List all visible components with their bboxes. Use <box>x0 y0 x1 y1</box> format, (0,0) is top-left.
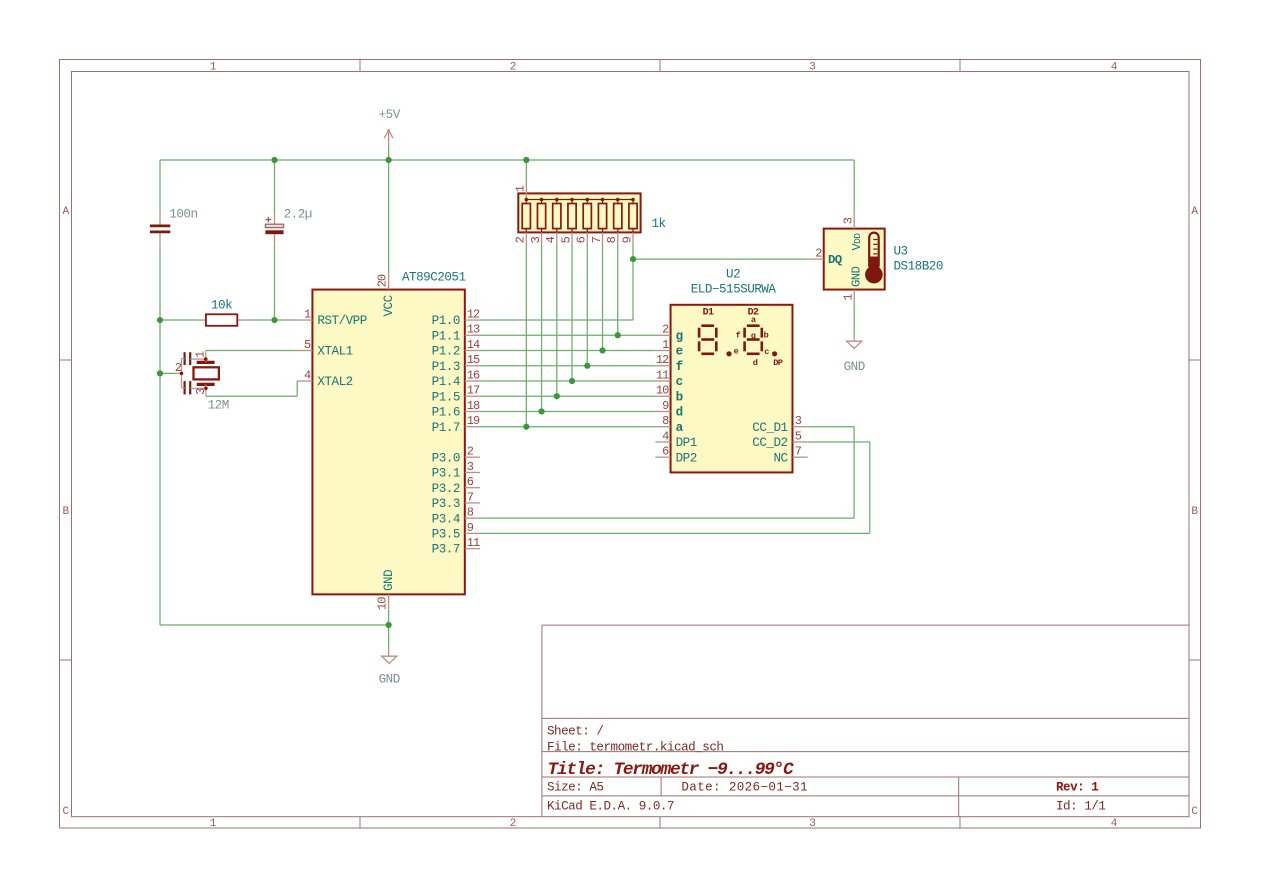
pin 15 P1.3 stub <box>465 365 480 367</box>
junction <box>584 363 590 369</box>
capacitor C1 bottom stub <box>159 233 161 244</box>
capacitor C1 plates <box>150 226 170 232</box>
pin 19 P1.7 stub <box>465 426 480 428</box>
svg-text:6: 6 <box>575 236 589 243</box>
wire P1.4 to display <box>480 380 655 382</box>
pin 6 DP2 stub <box>655 456 670 458</box>
svg-text:8: 8 <box>605 236 619 243</box>
svg-text:20: 20 <box>376 274 390 287</box>
svg-text:2: 2 <box>510 818 517 830</box>
svg-text:Size: A5: Size: A5 <box>547 780 603 794</box>
pin 11 P3.7 stub <box>465 548 480 550</box>
pin 9 RN1 stub <box>632 232 634 244</box>
svg-text:f: f <box>736 331 741 341</box>
resistor network RN1 element 1 <box>522 198 530 233</box>
svg-text:Date: 2026−01−31: Date: 2026−01−31 <box>681 780 808 794</box>
junction <box>157 370 163 376</box>
svg-text:9: 9 <box>467 521 474 535</box>
wire +5V rail <box>160 159 854 161</box>
frame tick top <box>359 60 361 72</box>
resistor network RN1 element 4 <box>568 198 576 233</box>
frame tick bottom <box>359 817 361 828</box>
svg-text:File: termometr.kicad_sch: File: termometr.kicad_sch <box>547 740 723 754</box>
pin 17 P1.5 stub <box>465 395 480 397</box>
svg-text:2.2µ: 2.2µ <box>284 208 312 222</box>
sensor U3 thermometer icon <box>865 233 883 284</box>
wire P3.4 <box>480 517 854 519</box>
svg-text:Title: Termometr −9...99°C: Title: Termometr −9...99°C <box>548 760 795 780</box>
pin 5 XTAL1 stub <box>297 350 312 352</box>
svg-text:P1.2: P1.2 <box>432 345 460 359</box>
svg-text:e: e <box>734 347 739 357</box>
wire XTAL2 horizontal <box>206 395 297 397</box>
svg-text:b: b <box>764 331 769 341</box>
pin 6 RN1 stub <box>586 232 588 244</box>
wire RN1 pin2 to P1.7 <box>525 245 527 427</box>
frame tick left <box>60 359 72 361</box>
resonator Y1 pin3 link <box>190 384 208 396</box>
svg-text:DP: DP <box>773 358 783 368</box>
pin 4 RN1 stub <box>556 232 558 244</box>
resistor network RN1 element 3 <box>553 198 561 233</box>
pin 12 f stub <box>655 365 670 367</box>
junction <box>615 332 621 338</box>
svg-text:3: 3 <box>809 818 816 830</box>
resistor R1 right stub <box>237 319 244 321</box>
svg-text:P1.4: P1.4 <box>432 375 460 389</box>
svg-text:Rev: 1: Rev: 1 <box>1056 780 1099 794</box>
svg-text:c: c <box>764 347 769 357</box>
sheet outer border <box>60 60 1201 829</box>
svg-text:RST/VPP: RST/VPP <box>317 314 366 328</box>
wire P1.2 to display <box>480 350 655 352</box>
resistor network RN1 body <box>518 193 640 232</box>
frame tick bottom <box>959 817 961 828</box>
pin 1 RST/VPP stub <box>297 319 312 321</box>
pin 2 g stub <box>655 334 670 336</box>
svg-text:XTAL2: XTAL2 <box>317 375 352 389</box>
pin 3 RN1 stub <box>541 232 543 244</box>
svg-text:+5V: +5V <box>379 108 401 122</box>
svg-text:9: 9 <box>620 236 634 243</box>
svg-text:1k: 1k <box>652 217 666 231</box>
svg-text:100n: 100n <box>169 208 197 222</box>
pin 2 RN1 stub <box>525 232 527 244</box>
pin 3 VDD stub <box>853 213 855 228</box>
frame tick top <box>659 60 661 72</box>
svg-text:P3.5: P3.5 <box>432 528 460 542</box>
wire P1.5 to display <box>480 395 655 397</box>
pin 5 RN1 stub <box>571 232 573 244</box>
wire XTAL1 <box>206 350 297 352</box>
pin 2 DQ stub <box>808 258 823 260</box>
wire RN1 pin7 to P1.2 <box>602 245 604 351</box>
junction <box>271 317 277 323</box>
svg-text:P1.3: P1.3 <box>432 360 460 374</box>
svg-text:CC_D2: CC_D2 <box>752 436 787 450</box>
wire P1.0 <box>480 319 633 321</box>
wire GND stub <box>388 610 390 648</box>
pin 1 GND stub <box>853 290 855 305</box>
svg-text:2: 2 <box>175 361 182 375</box>
pin 7 NC stub <box>792 456 807 458</box>
resistor R1 body <box>206 314 237 326</box>
junction <box>538 408 544 414</box>
resistor network RN1 element 5 <box>583 198 591 233</box>
capacitor C2 plus sign <box>266 217 272 223</box>
frame tick bottom <box>659 817 661 828</box>
wire RN1 pin1 <box>525 160 527 184</box>
svg-text:2: 2 <box>467 445 474 459</box>
junction <box>599 347 605 353</box>
display U2 body <box>671 305 793 473</box>
svg-text:d: d <box>753 358 758 368</box>
svg-text:1: 1 <box>304 307 311 321</box>
wire GND bottom <box>160 624 389 626</box>
resistor R1 left stub <box>198 319 206 321</box>
svg-text:3: 3 <box>841 217 855 224</box>
svg-text:9: 9 <box>662 399 669 413</box>
resonator Y1 capacitor plates <box>182 352 191 394</box>
svg-text:Sheet: /: Sheet: / <box>547 725 603 739</box>
resonator Y1 pin2 endpoint <box>178 372 184 376</box>
capacitor C1 top stub <box>159 214 161 225</box>
junction <box>386 622 392 628</box>
svg-text:A: A <box>62 206 69 218</box>
svg-text:10k: 10k <box>211 299 232 313</box>
wire CC_D1 vertical <box>853 427 855 518</box>
svg-text:8: 8 <box>467 506 474 520</box>
wire P1.7 to display <box>480 426 655 428</box>
svg-text:P3.1: P3.1 <box>432 467 460 481</box>
svg-text:DP1: DP1 <box>676 436 697 450</box>
sensor U3 body <box>824 229 885 290</box>
svg-text:XTAL1: XTAL1 <box>317 345 352 359</box>
svg-text:P1.6: P1.6 <box>432 406 460 420</box>
svg-text:7: 7 <box>590 236 604 243</box>
pin 16 P1.4 stub <box>465 380 480 382</box>
ground symbol <box>382 648 397 664</box>
svg-text:P3.3: P3.3 <box>432 497 460 511</box>
pin 5 CC_D2 stub <box>792 441 807 443</box>
svg-text:B: B <box>62 506 69 518</box>
svg-text:2: 2 <box>815 246 822 260</box>
wire VCC drop <box>388 160 390 274</box>
pin 4 XTAL2 stub <box>297 380 312 382</box>
svg-text:11: 11 <box>656 368 669 382</box>
svg-text:19: 19 <box>467 414 480 428</box>
resistor network RN1 element 2 <box>537 198 545 233</box>
svg-text:12M: 12M <box>208 398 229 412</box>
svg-text:GND: GND <box>850 266 864 287</box>
resonator Y1 pin1 link <box>190 351 207 363</box>
svg-text:b: b <box>676 390 683 404</box>
pin 10 b stub <box>655 395 670 397</box>
svg-text:2: 2 <box>662 323 669 337</box>
svg-text:NC: NC <box>773 451 788 465</box>
wire RST left <box>160 319 198 321</box>
power +5V symbol <box>384 129 393 146</box>
svg-text:C: C <box>1191 806 1198 818</box>
wire VDD drop <box>853 160 855 213</box>
svg-text:C: C <box>62 806 69 818</box>
svg-text:2: 2 <box>514 236 528 243</box>
pin 4 DP1 stub <box>655 441 670 443</box>
junction <box>523 157 529 163</box>
junction <box>386 157 392 163</box>
svg-text:18: 18 <box>467 399 480 413</box>
wire RN1 pin4 to P1.5 <box>556 245 558 397</box>
wire RN1 pin3 to P1.6 <box>541 245 543 412</box>
svg-text:Id: 1/1: Id: 1/1 <box>1056 800 1105 814</box>
svg-text:c: c <box>676 375 683 389</box>
pin 9 P3.5 stub <box>465 532 480 534</box>
wire resonator pin2 <box>160 372 178 374</box>
sheet inner border <box>72 72 1190 817</box>
svg-text:7: 7 <box>795 445 802 459</box>
svg-text:AT89C2051: AT89C2051 <box>402 271 466 285</box>
resistor network RN1 element 6 <box>598 198 606 233</box>
svg-text:f: f <box>676 360 683 374</box>
display digit D2 decimal point <box>772 351 777 356</box>
svg-text:4: 4 <box>1111 818 1118 830</box>
junction <box>554 393 560 399</box>
pin 2 P3.0 stub <box>465 456 480 458</box>
wire C2 bottom <box>274 245 276 320</box>
pin 1 RN1 stub <box>525 184 527 200</box>
svg-text:4: 4 <box>544 236 558 243</box>
wire P1.6 to display <box>480 410 655 412</box>
pin 14 P1.2 stub <box>465 350 480 352</box>
svg-text:6: 6 <box>662 445 669 459</box>
title block border <box>542 625 1189 817</box>
svg-text:P1.1: P1.1 <box>432 329 460 343</box>
svg-text:GND: GND <box>844 360 865 374</box>
pin 3 CC_D1 stub <box>792 426 807 428</box>
resistor network RN1 element 8 <box>629 198 637 233</box>
display digit D2 glyph <box>745 326 762 354</box>
svg-text:g: g <box>751 331 756 341</box>
capacitor C2 bottom plate <box>265 230 283 234</box>
display digit D1 decimal point <box>726 351 731 356</box>
svg-text:3: 3 <box>809 62 816 74</box>
svg-text:1: 1 <box>210 818 217 830</box>
capacitor C2 top stub <box>274 214 276 225</box>
svg-text:U3: U3 <box>894 245 908 259</box>
svg-text:VDD: VDD <box>850 233 864 251</box>
svg-text:B: B <box>1191 506 1198 518</box>
svg-text:12: 12 <box>467 307 480 321</box>
svg-text:11: 11 <box>467 536 480 550</box>
svg-text:10: 10 <box>376 597 390 610</box>
svg-text:5: 5 <box>559 236 573 243</box>
junction <box>569 378 575 384</box>
wire +5V stem <box>388 145 390 160</box>
svg-text:GND: GND <box>382 570 396 591</box>
pin 7 RN1 stub <box>602 232 604 244</box>
wire C2 top <box>274 160 276 214</box>
pin 6 P3.2 stub <box>465 487 480 489</box>
pin 8 P3.4 stub <box>465 517 480 519</box>
wire P3.5 <box>480 532 870 534</box>
wire RN1 pin8 to P1.1 <box>617 245 619 336</box>
svg-text:A: A <box>1191 206 1198 218</box>
svg-text:6: 6 <box>467 475 474 489</box>
svg-text:1: 1 <box>841 294 855 301</box>
wire CC_D1 horizontal <box>808 426 854 428</box>
svg-text:4: 4 <box>304 368 311 382</box>
svg-text:15: 15 <box>467 353 480 367</box>
pin 11 c stub <box>655 380 670 382</box>
svg-text:3: 3 <box>795 414 802 428</box>
svg-text:7: 7 <box>467 490 474 504</box>
resonator Y1 bottom electrode <box>197 383 215 386</box>
resistor network RN1 element 7 <box>614 198 622 233</box>
svg-text:P3.0: P3.0 <box>432 451 460 465</box>
capacitor C2 top plate <box>265 224 283 227</box>
svg-text:14: 14 <box>467 338 480 352</box>
wire CC_D2 vertical <box>869 442 871 533</box>
frame tick top <box>959 60 961 72</box>
svg-text:4: 4 <box>1111 62 1118 74</box>
svg-text:P3.7: P3.7 <box>432 543 460 557</box>
wire RN1 pin9 to DQ and P1.0 <box>632 245 634 321</box>
microcontroller U1 body <box>312 290 464 595</box>
capacitor C2 bottom stub <box>274 234 276 244</box>
wire U3 GND <box>853 305 855 336</box>
svg-text:VCC: VCC <box>382 294 396 316</box>
svg-text:5: 5 <box>304 338 311 352</box>
svg-text:P3.2: P3.2 <box>432 482 460 496</box>
svg-text:16: 16 <box>467 368 480 382</box>
svg-text:d: d <box>676 406 683 420</box>
svg-text:13: 13 <box>467 323 480 337</box>
pin 7 P3.3 stub <box>465 502 480 504</box>
wire DQ <box>633 258 809 260</box>
junction <box>157 317 163 323</box>
pin 9 d stub <box>655 410 670 412</box>
svg-text:P3.4: P3.4 <box>432 512 460 526</box>
svg-text:4: 4 <box>662 429 669 443</box>
svg-text:KiCad E.D.A. 9.0.7: KiCad E.D.A. 9.0.7 <box>547 800 674 814</box>
svg-text:1: 1 <box>194 351 208 358</box>
frame tick right <box>1189 359 1201 361</box>
svg-text:P1.0: P1.0 <box>432 314 460 328</box>
svg-text:1: 1 <box>514 185 528 192</box>
pin 8 RN1 stub <box>617 232 619 244</box>
pin 12 P1.0 stub <box>465 319 480 321</box>
wire RN1 pin6 to P1.3 <box>586 245 588 366</box>
svg-text:3: 3 <box>529 236 543 243</box>
pin 18 P1.6 stub <box>465 410 480 412</box>
svg-text:5: 5 <box>795 429 802 443</box>
svg-text:12: 12 <box>656 353 669 367</box>
wire left rail lower <box>159 245 161 625</box>
svg-text:U2: U2 <box>726 268 740 282</box>
svg-text:DQ: DQ <box>828 253 843 267</box>
resonator Y1 crystal body <box>194 367 219 379</box>
frame tick right <box>1189 659 1201 661</box>
wire CC_D2 horizontal <box>808 441 870 443</box>
svg-text:2: 2 <box>510 62 517 74</box>
svg-text:8: 8 <box>662 414 669 428</box>
pin 1 e stub <box>655 350 670 352</box>
wire left rail upper <box>159 160 161 214</box>
wire P1.1 to display <box>480 334 655 336</box>
svg-text:10: 10 <box>656 384 669 398</box>
svg-text:D1: D1 <box>703 307 714 318</box>
display digit D1 glyph <box>699 326 716 354</box>
pin 8 a stub <box>655 426 670 428</box>
svg-text:a: a <box>676 421 684 435</box>
wire RN1 pin5 to P1.4 <box>571 245 573 382</box>
junction <box>630 256 636 262</box>
svg-text:1: 1 <box>210 62 217 74</box>
junction <box>523 424 529 430</box>
wire P1.3 to display <box>480 365 655 367</box>
wire RST right <box>244 319 297 321</box>
wire XTAL2 vertical <box>296 381 298 396</box>
svg-text:1: 1 <box>662 338 669 352</box>
svg-text:3: 3 <box>467 460 474 474</box>
pin 3 P3.1 stub <box>465 471 480 473</box>
svg-text:DS18B20: DS18B20 <box>894 260 943 274</box>
svg-text:ELD−515SURWA: ELD−515SURWA <box>691 282 777 296</box>
svg-text:e: e <box>676 345 683 359</box>
ground symbol sensor <box>847 336 862 349</box>
pin 20 VCC stub <box>388 274 390 289</box>
resonator Y1 top electrode <box>197 361 215 364</box>
svg-text:g: g <box>676 329 683 343</box>
svg-text:17: 17 <box>467 384 480 398</box>
pin 10 GND stub <box>388 594 390 609</box>
svg-text:GND: GND <box>379 672 400 686</box>
frame tick left <box>60 659 72 661</box>
svg-text:a: a <box>751 315 756 325</box>
junction <box>271 157 277 163</box>
svg-text:3: 3 <box>194 388 208 395</box>
resistor network RN1 common bus <box>526 199 633 201</box>
svg-text:CC_D1: CC_D1 <box>752 421 787 435</box>
pin 13 P1.1 stub <box>465 334 480 336</box>
svg-text:P1.5: P1.5 <box>432 390 460 404</box>
svg-text:DP2: DP2 <box>676 451 697 465</box>
svg-text:P1.7: P1.7 <box>432 421 460 435</box>
